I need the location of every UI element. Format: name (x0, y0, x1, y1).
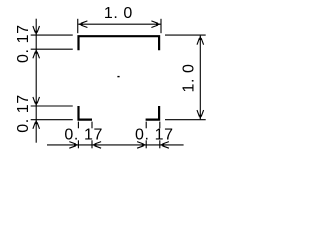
left upper dim: down arrow at y35.1 (33, 26, 40, 35)
right dim: top extension line (165, 34, 206, 36)
bottom dims: extension line x146.2 (145, 122, 147, 149)
bottom right dim: left-pointing arrow at x159.8 (160, 142, 169, 149)
bottom dims text mask right (131, 128, 172, 140)
left dims: extension line y49.2 (31, 48, 73, 50)
top dim: left arrow (78, 21, 87, 28)
svg-text:1. 0: 1. 0 (180, 63, 197, 92)
svg-text:1. 0: 1. 0 (104, 5, 133, 22)
bottom-right L corner pad (thick) (146, 106, 160, 120)
left dims: extension line y35.1 (31, 34, 73, 36)
bottom-left L corner pad (thick) (79, 106, 93, 120)
bottom left dim: right-pointing arrow at x78.4 (69, 142, 78, 149)
left upper dim: up arrow at y49.2 (33, 49, 40, 58)
svg-text:0. 17: 0. 17 (135, 126, 174, 143)
package outline: top edge with two corner legs (thick) (79, 36, 160, 50)
left dims: extension line y119.7 (31, 119, 73, 121)
svg-text:0. 17: 0. 17 (64, 126, 103, 143)
right dim: top arrow (197, 35, 204, 44)
svg-text:0. 17: 0. 17 (15, 94, 32, 133)
bottom dims: extension line x92 (91, 122, 93, 149)
top dim: right extension line (160, 19, 162, 33)
svg-text:0. 17: 0. 17 (15, 24, 32, 63)
right dim: dimension line (199, 36, 201, 120)
left lower dim: up arrow at y119.7 (33, 119, 40, 128)
bottom right dim: right-pointing arrow at x146.2 (137, 142, 146, 149)
bottom dims: extension line x78.4 (77, 122, 79, 149)
right dim: bottom arrow (197, 110, 204, 119)
top dim: left extension line (77, 19, 79, 33)
right dim: bottom extension line (165, 119, 206, 121)
bottom left dim: left-pointing arrow at x92 (92, 142, 101, 149)
bottom dims: dimension line (47, 144, 184, 146)
center mark dash (117, 76, 119, 77)
left dims: shared vertical dimension line (35, 19, 37, 143)
top dim: right arrow (151, 21, 160, 28)
left dims: extension line y106 (31, 105, 73, 107)
bottom dims text mask left (63, 128, 104, 140)
top dim: dimension line (78, 23, 160, 25)
bottom dims: extension line x159.8 (159, 122, 161, 149)
left lower dim: down arrow at y106 (33, 97, 40, 106)
